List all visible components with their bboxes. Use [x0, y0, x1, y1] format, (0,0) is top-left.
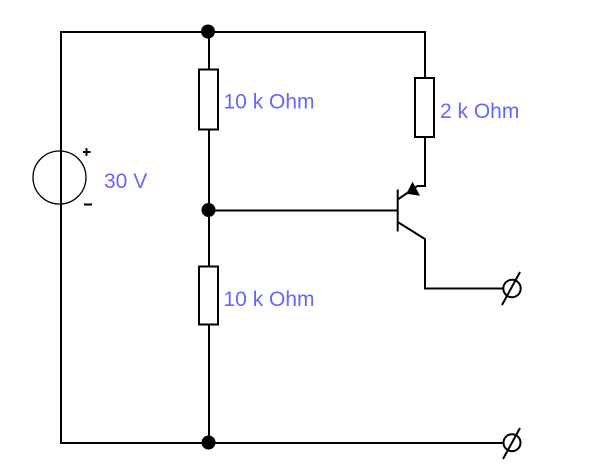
wire middle vertical upper	[208, 31, 210, 69]
wire bottom rail	[60, 442, 503, 444]
wire top rail	[60, 31, 426, 33]
wire middle vertical lower	[208, 325, 210, 443]
resistor R3 2 k Ohm	[415, 78, 434, 137]
node junction bottom	[202, 436, 216, 450]
terminal upper	[502, 272, 521, 305]
voltage source V1	[33, 148, 92, 204]
wire emitter lead	[399, 223, 504, 289]
wire base lead	[209, 210, 398, 212]
wire collector lead	[399, 137, 426, 199]
svg-text:2 k Ohm: 2 k Ohm	[440, 100, 519, 123]
transistor Q1 arrow	[406, 182, 420, 196]
resistor R1 10 k Ohm	[199, 70, 218, 130]
svg-text:10 k Ohm: 10 k Ohm	[224, 288, 315, 311]
resistor R2 10 k Ohm	[199, 267, 218, 325]
wire middle vertical center	[208, 130, 210, 266]
wire left rail	[60, 31, 62, 444]
transistor Q1 base bar	[397, 190, 399, 232]
svg-text:10 k Ohm: 10 k Ohm	[224, 91, 315, 114]
node junction top	[201, 25, 215, 39]
node junction middle	[202, 203, 216, 217]
wire right vertical upper	[424, 31, 426, 78]
svg-text:30 V: 30 V	[104, 170, 147, 193]
terminal lower	[503, 428, 521, 459]
